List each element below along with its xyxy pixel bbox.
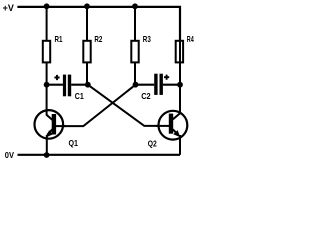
wire C1 right plate to node B (71, 84, 88, 86)
wire cross-couple node-B to Q2 base (88, 85, 170, 126)
wire R1 top stub (46, 7, 48, 40)
node junction rail-R3 (132, 3, 138, 9)
resistor R3 (131, 34, 151, 63)
svg-text:Q1: Q1 (69, 138, 79, 148)
node junction C2 left (133, 82, 139, 88)
svg-text:R2: R2 (94, 34, 102, 44)
node junction C2 right (177, 82, 183, 88)
wire C2 right plate to node D (163, 84, 180, 86)
node junction C1 right (85, 82, 91, 88)
svg-text:0V: 0V (5, 150, 14, 160)
wire R2 top stub (86, 7, 88, 40)
transistor Q2 (148, 85, 188, 155)
resistor R2 (83, 34, 102, 63)
wire R4 bottom stub (179, 40, 181, 85)
wire R1 bottom stub (46, 63, 48, 85)
capacitor C2 (141, 74, 169, 101)
transistor Q1 (35, 85, 79, 155)
wire top +V rail (17, 7, 180, 40)
wire R3 bottom stub (134, 63, 136, 85)
node junction rail-Q1 emitter (44, 152, 50, 158)
wire R2 bottom stub (86, 63, 88, 85)
svg-text:R1: R1 (55, 34, 63, 44)
node junction C1 left (44, 82, 50, 88)
wire node-A to C1 left plate (47, 84, 63, 86)
svg-text:R3: R3 (143, 34, 151, 44)
wire R3 top stub (134, 7, 136, 40)
wire node-C to C2 left plate (136, 84, 155, 86)
svg-text:C2: C2 (141, 91, 151, 101)
svg-text:R4: R4 (187, 34, 194, 44)
node junction rail-R1 (44, 3, 50, 9)
svg-text:Q2: Q2 (148, 138, 157, 148)
wire bottom 0V rail (18, 154, 181, 156)
resistor R4 (176, 34, 194, 63)
node junction rail-R2 (84, 3, 90, 9)
svg-text:+V: +V (3, 3, 14, 13)
svg-text:C1: C1 (75, 91, 84, 101)
wire cross-couple node-C to Q1 base (55, 85, 135, 126)
capacitor C1 (54, 75, 84, 101)
resistor R1 (43, 34, 63, 63)
